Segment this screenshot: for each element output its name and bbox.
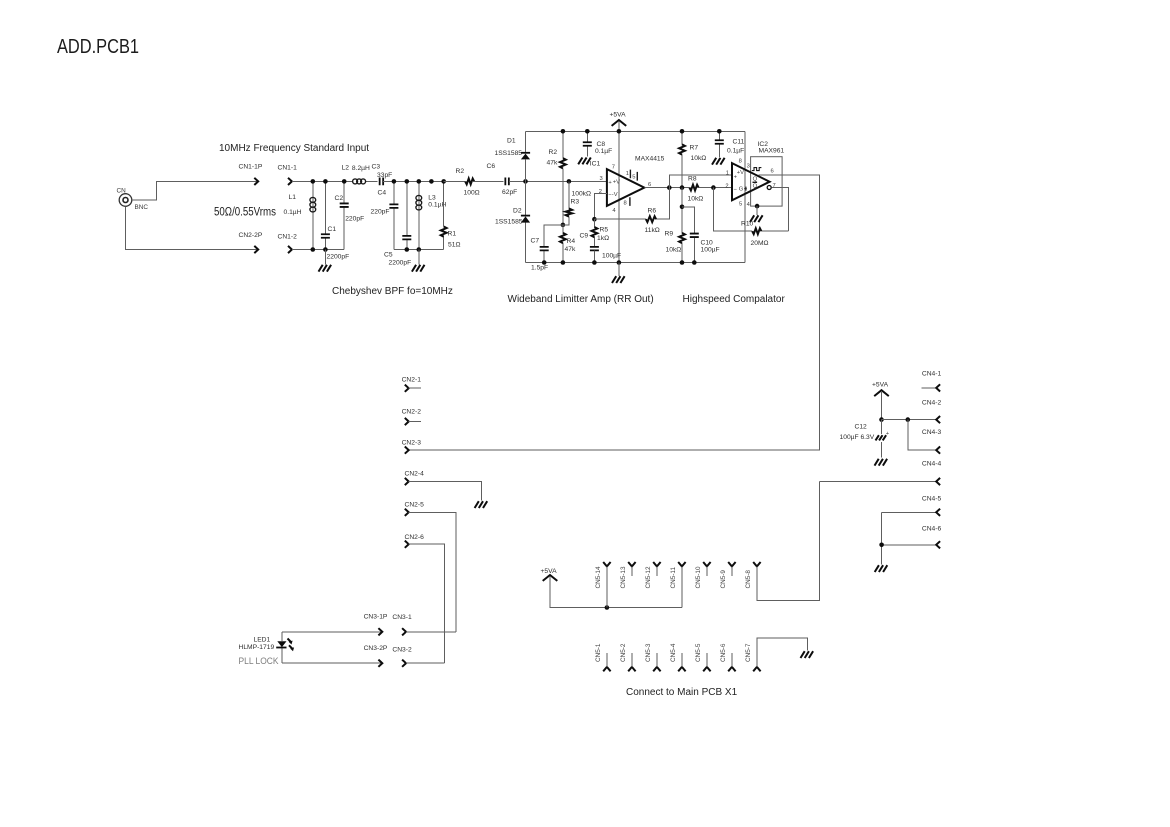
svg-text:-V: -V — [612, 192, 618, 198]
node R6 left — [592, 217, 597, 222]
svg-text:Chebyshev BPF fo=10MHz: Chebyshev BPF fo=10MHz — [332, 286, 453, 297]
wire amp bottom rail — [526, 262, 745, 264]
svg-text:R5: R5 — [600, 227, 609, 234]
svg-text:6: 6 — [648, 182, 651, 188]
svg-text:R4: R4 — [567, 238, 576, 245]
svg-text:+5VA: +5VA — [541, 568, 558, 575]
capacitor C3 — [372, 164, 394, 186]
svg-text:1: 1 — [726, 171, 729, 177]
svg-text:CN5-8: CN5-8 — [745, 570, 752, 589]
connector pin CN5-5 — [695, 643, 711, 671]
svg-text:C11: C11 — [733, 139, 745, 146]
comparator IC2 MAX961 — [725, 141, 784, 208]
svg-text:62pF: 62pF — [502, 189, 517, 196]
svg-text:MAX4415: MAX4415 — [635, 156, 665, 163]
wire BNC to CN2-2P — [126, 206, 259, 249]
node supply top rail — [617, 129, 622, 134]
svg-text:7: 7 — [612, 165, 615, 171]
svg-text:CN4-6: CN4-6 — [922, 526, 942, 533]
svg-text:0.1µH: 0.1µH — [284, 209, 302, 216]
capacitor C10 100uF — [682, 207, 720, 263]
svg-text:CN1-2: CN1-2 — [278, 234, 298, 241]
svg-text:10kΩ: 10kΩ — [666, 247, 682, 254]
node C10 bottom — [692, 260, 697, 265]
svg-text:100kΩ: 100kΩ — [572, 191, 592, 198]
wire output pin6 — [644, 187, 732, 189]
node C8 top — [585, 129, 590, 134]
svg-text:C12: C12 — [855, 424, 868, 431]
op-amp IC1 MAX4415 — [599, 156, 665, 215]
svg-text:100µF 6.3V: 100µF 6.3V — [840, 434, 875, 441]
svg-text:CN5-3: CN5-3 — [645, 643, 652, 662]
svg-text:CN5-4: CN5-4 — [670, 643, 677, 662]
svg-text:CN2-5: CN2-5 — [405, 501, 425, 508]
svg-text:6: 6 — [771, 169, 774, 175]
svg-text:+V: +V — [737, 170, 744, 176]
svg-text:ADD.PCB1: ADD.PCB1 — [57, 36, 139, 58]
svg-text:C1: C1 — [328, 226, 337, 233]
svg-text:50Ω/0.55Vrms: 50Ω/0.55Vrms — [214, 207, 276, 219]
svg-text:10MHz Frequency Standard Input: 10MHz Frequency Standard Input — [219, 143, 369, 154]
svg-text:2200pF: 2200pF — [389, 260, 412, 267]
svg-text:CN4-2: CN4-2 — [922, 399, 942, 406]
diode D2 1SS1585 — [495, 181, 530, 262]
wire LED to CN3-1P — [282, 631, 382, 633]
svg-text:CN4-4: CN4-4 — [922, 460, 942, 467]
svg-text:1SS1585: 1SS1585 — [495, 150, 523, 157]
ground CN5-7 — [801, 651, 814, 658]
svg-text:L2: L2 — [342, 165, 350, 172]
resistor R3 100k — [563, 181, 591, 225]
connector pin CN5-7 — [745, 638, 808, 671]
connector pin CN4-2 — [882, 399, 942, 423]
svg-text:PLL LOCK: PLL LOCK — [239, 656, 280, 667]
node C2 top — [342, 179, 347, 184]
node R4 bottom — [561, 260, 566, 265]
svg-text:CN5-11: CN5-11 — [670, 567, 677, 589]
svg-text:CN3-1: CN3-1 — [392, 614, 412, 621]
node supply bottom rail — [617, 260, 622, 265]
connector pin CN2-4 — [405, 471, 482, 501]
wire LED to CN3-2P — [282, 662, 382, 664]
svg-text:2200pF: 2200pF — [327, 254, 350, 261]
node R9 mid — [680, 205, 685, 210]
svg-text:CN5-6: CN5-6 — [720, 643, 727, 662]
svg-text:1SS1585: 1SS1585 — [495, 219, 523, 226]
svg-text:CN1-1: CN1-1 — [278, 165, 298, 172]
ground BPF right — [412, 250, 425, 272]
wire BPF top rail left — [313, 180, 352, 182]
capacitor C8 0.1uF — [583, 131, 612, 156]
svg-text:CN2-3: CN2-3 — [402, 440, 422, 447]
node extra top rail — [429, 179, 434, 184]
connector pin CN5-2 — [620, 643, 636, 671]
svg-text:10kΩ: 10kΩ — [691, 155, 707, 162]
connector pin CN4-4 — [820, 460, 942, 485]
wire Q output to CN2-3 — [409, 175, 820, 450]
node C5 top — [405, 179, 410, 184]
LED1 HLMP-1719 — [239, 632, 295, 663]
svg-text:C9: C9 — [580, 233, 589, 240]
node R7 bottom — [680, 185, 685, 190]
svg-text:R8: R8 — [688, 175, 697, 182]
svg-text:CN: CN — [117, 188, 127, 195]
svg-text:0.1µF: 0.1µF — [727, 148, 744, 155]
svg-text:220pF: 220pF — [371, 209, 390, 216]
wire Qbar output — [771, 188, 788, 232]
svg-text:D2: D2 — [513, 208, 522, 215]
ground amp — [612, 263, 625, 284]
node diode junction — [523, 179, 528, 184]
connector pin CN5-12 — [645, 562, 661, 589]
ground IC2 — [750, 206, 763, 222]
svg-text:Highspeed Compalator: Highspeed Compalator — [683, 294, 786, 305]
resistor R6 11k feedback — [594, 188, 669, 234]
node C7 bottom — [542, 260, 547, 265]
wire CN4-5 to ground — [881, 512, 883, 564]
power +5VA right — [872, 381, 889, 419]
svg-text:20MΩ: 20MΩ — [751, 240, 769, 247]
svg-text:R2: R2 — [549, 149, 558, 156]
connector pin CN4-3 — [908, 420, 942, 454]
svg-text:CN4-3: CN4-3 — [922, 429, 942, 436]
svg-text:CN2-2: CN2-2 — [402, 409, 422, 416]
node C4 top — [392, 179, 397, 184]
wire amp top rail — [526, 130, 745, 132]
svg-text:33pF: 33pF — [377, 172, 392, 179]
svg-text:CN2-1: CN2-1 — [402, 376, 422, 383]
connector pin CN4-5 — [882, 495, 942, 516]
svg-text:R2: R2 — [456, 168, 465, 175]
svg-text:10kΩ: 10kΩ — [688, 195, 704, 202]
node bias A — [561, 223, 566, 228]
ground C8 — [578, 158, 600, 168]
connector pin CN3-2 — [392, 646, 444, 667]
svg-text:G: G — [739, 187, 744, 193]
capacitor C7 1.5pF — [531, 225, 563, 272]
connector pin CN2-2 — [402, 409, 422, 426]
node top rail R2b — [561, 129, 566, 134]
svg-text:+5VA: +5VA — [610, 112, 627, 119]
node CN4-2 branch — [906, 417, 911, 422]
svg-text:51Ω: 51Ω — [448, 242, 460, 249]
node L3 top — [417, 179, 422, 184]
capacitor C2 — [335, 181, 365, 249]
wire R2 to C6 — [474, 180, 503, 182]
connector pin CN4-6 — [882, 526, 942, 549]
svg-text:CN3-2P: CN3-2P — [364, 645, 388, 652]
resistor R5 1k — [592, 219, 610, 247]
svg-text:R10: R10 — [741, 221, 754, 228]
svg-text:5: 5 — [739, 202, 742, 208]
svg-text:R7: R7 — [690, 145, 699, 152]
svg-text:+5VA: +5VA — [872, 381, 889, 388]
svg-text:C8: C8 — [597, 141, 606, 148]
diode D1 1SS1585 — [495, 131, 531, 181]
wire BNC to CN1-1P — [132, 181, 258, 200]
svg-text:11kΩ: 11kΩ — [645, 227, 660, 234]
ground CN2-4 — [475, 501, 488, 508]
svg-text:L1: L1 — [289, 194, 297, 201]
node CN5-14 bus — [605, 605, 610, 610]
svg-text:Q: Q — [753, 183, 758, 189]
svg-text:R6: R6 — [648, 208, 657, 215]
svg-text:3: 3 — [600, 176, 603, 182]
svg-text:+: + — [886, 431, 890, 437]
connector pin CN2-2P — [239, 232, 263, 253]
svg-text:C5: C5 — [384, 252, 393, 259]
ground C11 — [712, 158, 725, 165]
svg-text:1kΩ: 1kΩ — [597, 235, 609, 242]
svg-text:5: 5 — [632, 175, 635, 181]
wire top rail corner down — [744, 131, 746, 262]
capacitor C6 — [487, 163, 518, 196]
wire pin1 loop — [669, 175, 732, 187]
ground CN4 — [875, 565, 888, 572]
node C5 bottom — [405, 247, 410, 252]
node R9 bottom — [680, 260, 685, 265]
wire BPF bottom rail right — [394, 249, 444, 251]
connector pin CN3-1P — [364, 613, 388, 635]
svg-text:D1: D1 — [507, 138, 516, 145]
resistor R9 10k — [665, 188, 685, 263]
connector pin CN4-1 — [922, 371, 942, 392]
node C12 top — [879, 417, 884, 422]
wire CN1-2 to filter — [292, 249, 313, 251]
svg-text:CN5-9: CN5-9 — [720, 570, 727, 589]
connector pin CN5-9 — [720, 562, 736, 589]
connector pin CN5-14 — [595, 562, 611, 608]
svg-text:8: 8 — [739, 158, 742, 164]
node R1 top — [441, 179, 446, 184]
node output junction — [667, 185, 672, 190]
svg-text:C4: C4 — [378, 190, 387, 197]
svg-text:CN4-5: CN4-5 — [922, 495, 942, 502]
svg-text:220pF: 220pF — [345, 216, 364, 223]
capacitor C1 — [321, 181, 349, 260]
svg-text:1.5pF: 1.5pF — [531, 265, 548, 272]
power +5VA CN5 bus — [541, 568, 682, 607]
connector pin CN5-13 — [620, 562, 636, 589]
svg-text:2: 2 — [725, 184, 728, 190]
connector pin CN1-1 — [278, 165, 298, 186]
svg-text:C7: C7 — [531, 238, 540, 245]
node C1 bottom — [323, 247, 328, 252]
connector pin CN3-1 — [392, 614, 456, 635]
connector pin CN2-6 — [405, 534, 445, 663]
node L3 bottom — [417, 247, 422, 252]
svg-text:CN1-1P: CN1-1P — [239, 164, 263, 171]
connector pin CN2-3 — [402, 440, 422, 454]
node L1 bottom — [311, 247, 316, 252]
svg-text:CN3-2: CN3-2 — [392, 646, 412, 653]
wire C6 to amp input — [509, 180, 607, 182]
resistor R8 10k — [688, 175, 704, 202]
svg-text:+V: +V — [613, 179, 620, 185]
svg-text:0.1µF: 0.1µF — [595, 148, 612, 155]
svg-text:MAX961: MAX961 — [759, 148, 785, 155]
BNC connector CN — [117, 188, 149, 212]
node IC2 gnd pin — [755, 204, 760, 209]
node C11 top — [717, 129, 722, 134]
svg-text:CN4-1: CN4-1 — [922, 371, 942, 378]
inductor L3 — [416, 181, 447, 249]
svg-text:100µF: 100µF — [602, 253, 621, 260]
svg-text:3: 3 — [747, 164, 750, 170]
resistor R1 — [441, 181, 461, 249]
svg-text:R1: R1 — [448, 231, 457, 238]
svg-text:CN5-5: CN5-5 — [695, 643, 702, 662]
wire pin2 to R5 node — [594, 194, 607, 220]
resistor R2 — [456, 168, 480, 197]
connector pin CN5-4 — [670, 643, 686, 671]
connector pin CN3-2P — [364, 645, 388, 667]
svg-text:IC1: IC1 — [590, 161, 601, 168]
capacitor C12 100uF polarized — [840, 420, 890, 458]
resistor R7 10k — [679, 131, 706, 187]
svg-text:CN2-6: CN2-6 — [405, 534, 425, 541]
svg-text:8: 8 — [624, 201, 627, 207]
node C1 top — [323, 179, 328, 184]
svg-text:LED1: LED1 — [254, 637, 271, 644]
connector pin CN2-1 — [402, 376, 422, 392]
capacitor C4 — [371, 181, 399, 249]
svg-text:C2: C2 — [335, 195, 344, 202]
node L1 top — [311, 179, 316, 184]
svg-text:C10: C10 — [701, 240, 714, 247]
resistor R2b 47k — [547, 131, 566, 225]
svg-text:L3: L3 — [428, 195, 436, 202]
svg-text:C3: C3 — [372, 164, 381, 171]
svg-text:CN5-10: CN5-10 — [695, 566, 702, 588]
connector pin CN5-11 — [670, 562, 686, 608]
capacitor C11 0.1uF — [715, 131, 745, 157]
connector pin CN1-1P — [239, 164, 263, 186]
svg-text:1: 1 — [626, 171, 629, 177]
capacitor C9 100uF — [580, 233, 622, 263]
svg-text:CN2-4: CN2-4 — [405, 471, 425, 478]
svg-text:CN5-7: CN5-7 — [745, 643, 752, 662]
svg-text:C6: C6 — [487, 163, 496, 170]
inductor L1 — [284, 181, 316, 249]
connector pin CN1-2 — [278, 234, 298, 254]
resistor R10 20M feedback — [713, 188, 788, 247]
svg-text:47k: 47k — [547, 160, 558, 167]
svg-text:BNC: BNC — [135, 204, 149, 211]
svg-text:CN5-12: CN5-12 — [645, 566, 652, 588]
connector pin CN5-8 — [745, 482, 820, 601]
wire CN1-1 to filter — [292, 180, 313, 182]
connector pin CN2-5 — [405, 501, 457, 631]
svg-text:CN5-13: CN5-13 — [620, 566, 627, 588]
node 100k tap — [567, 179, 572, 184]
connector pin CN5-3 — [645, 643, 661, 671]
ground C12 — [875, 459, 888, 466]
svg-text:47k: 47k — [565, 246, 576, 253]
ground BPF left — [319, 250, 332, 272]
svg-text:Wideband Limitter Amp (RR Out): Wideband Limitter Amp (RR Out) — [508, 294, 654, 305]
svg-text:CN5-1: CN5-1 — [595, 643, 602, 662]
svg-text:CN2-2P: CN2-2P — [239, 232, 263, 239]
node R7 top — [680, 129, 685, 134]
svg-text:HLMP-1719: HLMP-1719 — [239, 644, 275, 651]
capacitor C5 — [384, 181, 411, 266]
wire BPF bottom rail left — [313, 249, 344, 251]
connector pin CN5-10 — [695, 562, 711, 589]
svg-text:CN5-2: CN5-2 — [620, 643, 627, 662]
connector pin CN5-1 — [595, 643, 611, 671]
svg-text:CN3-1P: CN3-1P — [364, 613, 388, 620]
svg-text:8.2µH: 8.2µH — [352, 165, 370, 172]
wire BPF top rail right — [394, 180, 444, 182]
svg-text:CN5-14: CN5-14 — [595, 566, 602, 588]
node C9 bottom — [592, 260, 597, 265]
inductor L2 — [342, 165, 378, 184]
connector pin CN5-6 — [720, 643, 736, 671]
power +5VA amp — [610, 112, 627, 263]
node R8 right — [711, 185, 716, 190]
svg-text:100Ω: 100Ω — [464, 190, 480, 197]
resistor R4 47k — [560, 225, 576, 263]
node CN4-6 branch — [879, 543, 884, 548]
wire rail to R2 — [444, 180, 466, 182]
svg-text:Connect to Main PCB X1: Connect to Main PCB X1 — [626, 687, 738, 698]
svg-text:R3: R3 — [571, 199, 580, 206]
svg-text:R9: R9 — [665, 231, 674, 238]
svg-text:100µF: 100µF — [701, 247, 720, 254]
